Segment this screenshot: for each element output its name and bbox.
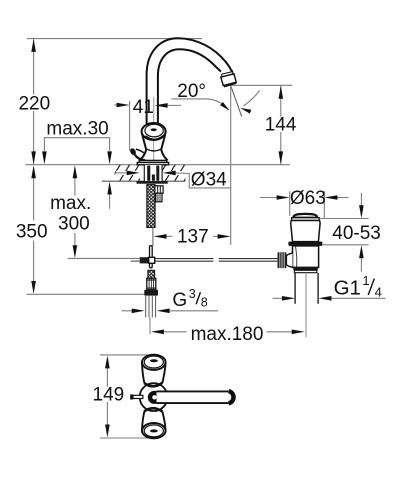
350 bottom reference line xyxy=(26,293,144,295)
max.300 reference line (pop-up rod level) xyxy=(68,257,140,259)
20deg leader with arrow xyxy=(171,99,227,108)
deck bottom line xyxy=(102,180,186,182)
svg-text:G: G xyxy=(172,290,187,311)
G3/8 ribbed body xyxy=(147,278,156,290)
40-53 extension lines xyxy=(320,219,369,245)
svg-text:1: 1 xyxy=(362,273,369,288)
svg-text:149: 149 xyxy=(93,384,125,405)
plan escutcheon circle xyxy=(140,383,168,411)
O34 leader and box xyxy=(176,173,231,188)
svg-text:Ø63: Ø63 xyxy=(290,188,326,209)
dimension 149 line xyxy=(106,368,108,387)
dimension max.180 xyxy=(164,331,187,333)
braided flex hose xyxy=(147,185,155,228)
horizontal pop-up rod xyxy=(155,259,278,262)
pop-up lever knob xyxy=(129,147,137,156)
pop-up waste lower body xyxy=(293,246,319,268)
svg-text:8: 8 xyxy=(201,295,208,309)
pop-up rod pivot pin xyxy=(150,246,153,268)
pop-up waste knurled knob xyxy=(278,252,287,268)
svg-text:40-53: 40-53 xyxy=(332,223,381,244)
plan top handle cap xyxy=(142,355,166,370)
aerator block xyxy=(221,74,236,86)
handle slot xyxy=(151,128,157,131)
svg-text:G1: G1 xyxy=(334,276,361,299)
body bell sides xyxy=(139,150,167,161)
149 extension lines xyxy=(100,355,151,438)
max.30 bracket xyxy=(44,138,109,151)
svg-text:4: 4 xyxy=(375,284,382,299)
dimension 41 arrows xyxy=(114,104,117,106)
top reference line (spout height datum) xyxy=(27,38,202,40)
spout outer curve xyxy=(147,38,233,124)
max.30 underside arrow xyxy=(109,194,111,209)
plan bottom handle cap xyxy=(142,423,166,438)
spout inner curve xyxy=(158,49,221,124)
G3/8 threaded stub xyxy=(148,270,155,278)
svg-text:350: 350 xyxy=(16,222,48,243)
dimension G1 1/4 arrows xyxy=(273,297,283,299)
dimension 220 line xyxy=(33,39,35,94)
svg-text:Ø34: Ø34 xyxy=(191,170,227,191)
svg-text:220: 220 xyxy=(18,94,50,115)
144 top extension line xyxy=(231,84,292,86)
plan top bell arc xyxy=(144,383,162,387)
G3/8 thread pipes xyxy=(146,296,156,318)
aerator collar band xyxy=(222,72,233,77)
O63 extension lines xyxy=(290,191,325,218)
G3/8 nut xyxy=(144,290,158,296)
plan spout end cap xyxy=(229,391,234,403)
handle cap inner ellipse xyxy=(145,124,163,137)
spout centerline xyxy=(153,97,155,163)
dimension O34 arrows xyxy=(116,171,139,175)
deck hatch left xyxy=(100,164,149,183)
G3/8 dimension arrows xyxy=(121,310,132,312)
long vertical extension line from spout tip xyxy=(230,85,232,244)
deck top surface line xyxy=(25,164,289,166)
dimension 40-53 xyxy=(360,193,362,206)
handle cone sides xyxy=(142,135,165,150)
handle cap outer ellipse xyxy=(142,123,166,140)
pop-up waste upper bell xyxy=(291,221,320,242)
svg-text:41: 41 xyxy=(133,97,154,118)
svg-text:3: 3 xyxy=(189,287,196,301)
dimension 137 xyxy=(167,235,173,237)
plan lever pin xyxy=(133,395,143,398)
base flange xyxy=(139,160,167,162)
pop-up rod tube xyxy=(155,186,163,193)
plan top handle cone xyxy=(142,363,166,383)
20deg arc arrow xyxy=(243,91,259,106)
41 extension line xyxy=(129,101,131,151)
plan spout ball joint xyxy=(150,393,159,402)
dimension 144 line xyxy=(280,86,282,117)
svg-text:300: 300 xyxy=(58,213,90,234)
pop-up rod wire xyxy=(152,227,154,246)
svg-text:max.30: max.30 xyxy=(46,118,108,139)
pop-up waste bottom ring xyxy=(293,267,317,270)
svg-text:max.: max. xyxy=(50,193,91,214)
svg-text:144: 144 xyxy=(265,115,297,136)
dimension O63 xyxy=(260,197,277,199)
plan spout tube xyxy=(157,391,229,403)
shank through deck xyxy=(144,165,162,181)
pop-up waste inlet funnel xyxy=(286,253,292,267)
dimension 350 line xyxy=(33,178,35,221)
pop-up waste plug ring xyxy=(292,218,320,221)
svg-text:137: 137 xyxy=(177,227,209,248)
max.300 dimension line xyxy=(74,178,76,196)
pop-up waste tailpipe xyxy=(295,273,318,304)
deck hatch right xyxy=(155,164,195,183)
washer under deck xyxy=(137,181,168,184)
pop-up waste seal ring xyxy=(288,242,322,246)
plan bottom handle cone xyxy=(142,412,166,431)
pop-up waste cap dome xyxy=(293,214,317,218)
svg-text:max.180: max.180 xyxy=(191,324,264,345)
20deg slant line xyxy=(231,86,242,116)
plan bottom bell arc xyxy=(144,408,162,412)
pivot clamp block xyxy=(140,257,149,263)
